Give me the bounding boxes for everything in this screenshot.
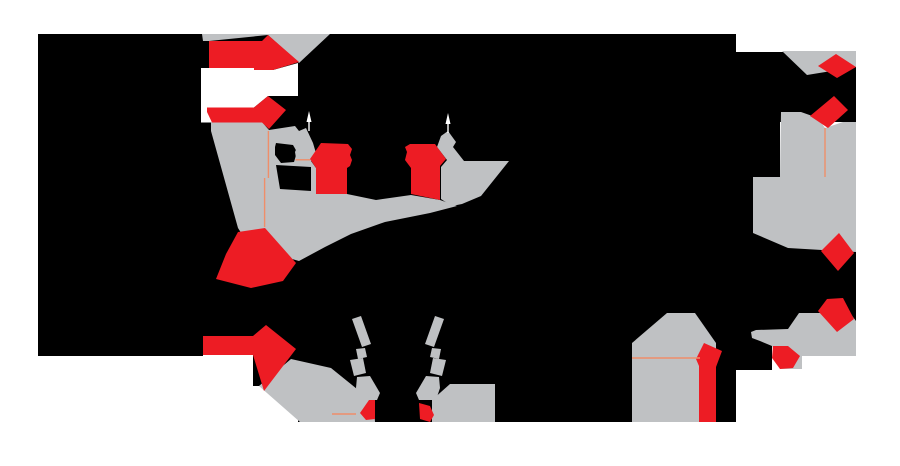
wire B1 tab lower xyxy=(203,98,209,128)
claw segment left S2 xyxy=(356,348,367,359)
wire B8 black behind lower X arrow xyxy=(203,313,298,355)
resistor R1 red arrow 1 xyxy=(209,35,299,70)
capacitor g10 gray house bottom-right xyxy=(632,313,716,422)
diode D3 red diamond A top-right xyxy=(818,54,856,78)
wire L1 salmon vertical upper xyxy=(267,131,269,178)
wire L3 salmon horizontal left shirt xyxy=(296,159,311,161)
capacitor g1 gray corner wedge top-left xyxy=(202,34,330,63)
diode D6 red diamond D xyxy=(818,298,854,332)
wire B2 central black mass xyxy=(203,34,736,313)
claw segment left S1 xyxy=(352,316,371,347)
diode D1 claw red tip left xyxy=(360,400,375,420)
wire B7 bottom-right black ledge xyxy=(736,313,772,370)
wire B1 left black block xyxy=(38,34,203,356)
diode D4 red diamond B xyxy=(810,96,848,128)
wire B1 tab upper xyxy=(203,41,209,67)
capacitor g9 gray bottom middle slab xyxy=(432,384,495,422)
capacitor g6 gray left of left shirt xyxy=(295,129,313,160)
resistor R4 right red shirt xyxy=(405,144,446,200)
capacitor g2 gray funnel band combined xyxy=(211,122,457,261)
wire B5 top-right black cluster xyxy=(780,52,856,122)
resistor R6 lower X red arrow xyxy=(203,325,296,391)
node antenna 1 xyxy=(307,111,312,131)
resistor R5 upper X red xyxy=(216,228,296,288)
wire pocket2 black notch xyxy=(276,165,311,191)
diode D7 red hexagon E xyxy=(772,346,800,369)
capacitor g5 gray boat right of right shirt xyxy=(437,131,509,206)
resistor R2 red arrow 2 xyxy=(207,96,286,129)
claw base right xyxy=(416,376,440,400)
wire L5 salmon vertical tower xyxy=(824,128,826,177)
claw segment left S3 xyxy=(350,358,366,376)
claw segment right S3 xyxy=(430,358,446,376)
claw segment right S1 xyxy=(425,316,444,347)
capacitor g13 gray V wedge top-right xyxy=(782,51,856,75)
wire L4 salmon horizontal house xyxy=(632,357,700,359)
wire B9 black wedge right of down arrow xyxy=(253,355,298,386)
wire pocket1 black notch xyxy=(275,143,297,163)
capacitor g11 gray right arm xyxy=(751,313,856,369)
wire B4 right black column xyxy=(736,52,780,313)
node w2 white gap above arrow2 head xyxy=(201,96,268,123)
wire L7 salmon horizontal bottom-left xyxy=(332,413,356,415)
capacitor g8 gray bottom-left slab xyxy=(259,359,375,422)
diode D2 claw red tip right xyxy=(419,403,434,422)
claw base left xyxy=(356,376,380,400)
resistor R7 red stripe on house xyxy=(696,343,722,422)
claw segment right S2 xyxy=(430,348,441,359)
resistor R3 left red shirt xyxy=(310,143,352,194)
node w1 white gap between arrows xyxy=(201,63,298,96)
wire B3 lower central black mass xyxy=(298,313,736,422)
wire L2 salmon vertical lower xyxy=(264,178,266,227)
capacitor g12 gray tower xyxy=(753,112,856,252)
wire B6 right mid black cluster xyxy=(753,233,856,330)
node antenna 2 xyxy=(446,113,451,133)
diode D5 red diamond C xyxy=(821,233,854,271)
